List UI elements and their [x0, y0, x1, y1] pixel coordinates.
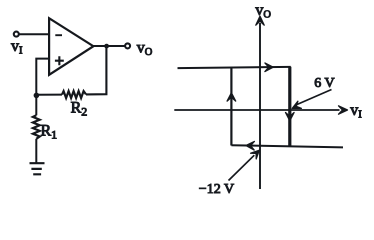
arrowhead vI axis [339, 106, 348, 114]
arrowhead vO axis [256, 16, 264, 25]
upper output level line [178, 67, 291, 68]
svg-text:vO: vO [255, 2, 271, 21]
axis vO (vertical) [259, 23, 261, 189]
wire: R1 to ground [35, 139, 37, 163]
svg-text:−12 V: −12 V [199, 182, 234, 197]
op-amp U1 [49, 18, 93, 75]
wire: non-inverting input stub [36, 59, 48, 95]
lower output level line [231, 145, 343, 147]
svg-text:vO: vO [137, 40, 153, 59]
svg-text:R1: R1 [41, 123, 58, 142]
output terminal vO [125, 43, 130, 48]
svg-text:R2: R2 [71, 99, 88, 118]
op-amp minus sign [55, 34, 62, 36]
wire: junction down to R1 [35, 95, 37, 115]
ground [30, 163, 45, 174]
arrowhead left on lower line [246, 141, 254, 150]
annotation arrow 6 V [297, 90, 332, 105]
op-amp plus sign [55, 56, 64, 65]
node A junction dot [34, 93, 40, 99]
input terminal vI [14, 32, 19, 37]
svg-text:vI: vI [11, 38, 23, 57]
resistor R1 [33, 115, 40, 139]
svg-text:vI: vI [350, 102, 362, 121]
svg-text:6 V: 6 V [314, 76, 334, 91]
wire: R2 right to output branch [86, 46, 106, 94]
wire: input terminal to inverting input [19, 33, 48, 35]
right vertical transition (thick) [288, 67, 291, 147]
resistor R2 [62, 91, 86, 98]
arrowhead right on upper line [265, 63, 273, 72]
wire: junction to R2 left [36, 94, 62, 96]
wire: op-amp output [93, 45, 124, 47]
annotation arrow -12 V [229, 155, 255, 180]
axis vI (horizontal) [174, 109, 339, 111]
left vertical transition [230, 67, 232, 145]
node output junction dot [104, 44, 109, 49]
arrowhead down on right vertical [286, 113, 295, 121]
arrowhead up on left vertical [227, 93, 236, 101]
